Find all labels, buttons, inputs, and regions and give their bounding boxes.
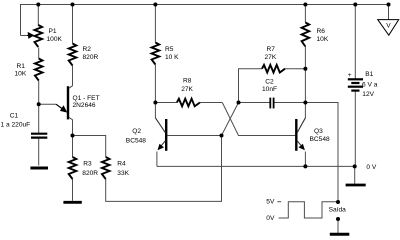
- resistor R6 body: [302, 23, 310, 47]
- svg-text:Saída: Saída: [329, 207, 347, 214]
- node rail V: [387, 3, 391, 7]
- node rail B1: [353, 3, 357, 7]
- wire Q2 collector riser: [154, 103, 156, 119]
- node Q1 base1: [71, 134, 75, 138]
- wire 5V level tick: [277, 201, 281, 203]
- svg-text:Q3: Q3: [314, 128, 323, 135]
- potentiometer P1 body: [35, 25, 43, 47]
- wire R6 top lead: [304, 5, 306, 23]
- wire 0V rail: [157, 165, 355, 167]
- node Saida bottom: [336, 217, 340, 221]
- svg-text:10 K: 10 K: [165, 54, 179, 61]
- wire top supply rail: [21, 5, 389, 36]
- svg-text:820R: 820R: [83, 54, 99, 61]
- svg-text:27K: 27K: [265, 54, 277, 61]
- wire Q1 emitter lead: [39, 103, 56, 105]
- svg-text:27K: 27K: [181, 86, 193, 93]
- transistor Q1 UJT 2N2646: [56, 86, 68, 119]
- wire battery positive lead: [354, 5, 356, 79]
- svg-text:B1: B1: [365, 71, 373, 78]
- svg-text:10nF: 10nF: [262, 86, 277, 93]
- transistor Q2 BC548: [155, 118, 166, 151]
- svg-text:R3: R3: [83, 161, 92, 168]
- svg-text:10K: 10K: [317, 36, 329, 43]
- svg-text:6 V a: 6 V a: [362, 82, 378, 89]
- resistor R2 body: [69, 44, 77, 66]
- wire R8 to crossover: [200, 102, 222, 104]
- svg-text:Q2: Q2: [132, 128, 141, 135]
- svg-text:0 V: 0 V: [366, 164, 376, 171]
- ground at 0V rail: [346, 184, 366, 187]
- svg-text:P1: P1: [49, 28, 57, 35]
- wire R4 bottom to Q2 base node: [106, 136, 222, 202]
- svg-text:33K: 33K: [117, 170, 129, 177]
- svg-text:12V: 12V: [362, 91, 374, 98]
- svg-text:BC548: BC548: [126, 138, 146, 145]
- wire node to R3: [72, 136, 74, 158]
- capacitor C1: [31, 134, 47, 166]
- svg-text:Q1 - FET: Q1 - FET: [73, 95, 100, 102]
- wire R7 right to R6 node: [285, 68, 305, 70]
- node Q1 emitter: [37, 102, 41, 106]
- wire node to R4 top: [73, 136, 106, 158]
- wire P1 top lead: [37, 5, 39, 26]
- wire R5 top lead: [154, 5, 156, 43]
- node Saida top: [336, 200, 340, 204]
- svg-text:R6: R6: [317, 28, 326, 35]
- node battery 0V: [353, 164, 357, 168]
- svg-text:R7: R7: [267, 46, 276, 53]
- node rail R5: [153, 3, 157, 7]
- node rail R2: [71, 3, 75, 7]
- wire C2 R7 node riser: [239, 69, 263, 103]
- svg-text:C2: C2: [265, 78, 274, 85]
- wire Q2 base to crossover: [167, 103, 238, 136]
- wire Q3 collector riser: [304, 103, 306, 119]
- svg-text:+: +: [348, 72, 352, 79]
- resistor R5 body: [152, 43, 160, 65]
- potentiometer P1 wiper arrow: [27, 32, 34, 39]
- svg-text:100K: 100K: [47, 36, 63, 43]
- wire C2 right plate to node: [274, 102, 305, 104]
- resistor R8 body: [177, 99, 200, 107]
- ground below R3: [63, 201, 81, 204]
- node R6 R7: [303, 67, 307, 71]
- wire Q2 emitter drop: [156, 152, 158, 167]
- power symbol V triangle: [378, 20, 399, 36]
- node rail P1: [36, 3, 40, 7]
- wire R5 to node: [154, 65, 156, 103]
- wire square wave: [279, 202, 337, 218]
- svg-text:R5: R5: [165, 46, 174, 53]
- resistor R1 body: [35, 59, 43, 81]
- wire R3 to ground: [72, 179, 74, 201]
- wire node to C2 left plate: [239, 102, 270, 104]
- wire Q1 base1 to node: [69, 117, 73, 135]
- wire R1 to C1 through node: [38, 81, 40, 133]
- svg-text:0V: 0V: [266, 215, 275, 222]
- svg-text:10K: 10K: [15, 71, 27, 78]
- resistor R4 body: [102, 157, 110, 179]
- wire Q3 emitter drop: [304, 152, 306, 167]
- node Q3 collector: [303, 101, 307, 105]
- svg-text:R1: R1: [17, 63, 26, 70]
- wire Saida ground stem: [337, 219, 339, 234]
- svg-text:820R: 820R: [82, 170, 98, 177]
- wire R2 to Q1 base2: [69, 66, 73, 89]
- svg-text:R8: R8: [183, 78, 192, 85]
- capacitor C2: [270, 98, 273, 109]
- wire battery negative lead: [354, 92, 356, 167]
- wire node to R8: [155, 102, 177, 104]
- ground below Saida: [330, 233, 350, 236]
- svg-text:C1: C1: [10, 113, 19, 120]
- svg-text:5V: 5V: [266, 199, 275, 206]
- svg-text:BC548: BC548: [310, 136, 330, 143]
- battery B1: [348, 79, 363, 90]
- wire R2 top lead: [72, 5, 74, 44]
- node Q2 base: [220, 134, 224, 138]
- resistor R7 body: [262, 65, 285, 73]
- node Q2 base coupling: [237, 101, 241, 105]
- svg-text:R4: R4: [117, 161, 126, 168]
- svg-text:V: V: [386, 23, 391, 30]
- resistor R3 body: [69, 157, 77, 179]
- svg-text:R2: R2: [83, 46, 92, 53]
- svg-text:2N2646: 2N2646: [73, 102, 96, 109]
- wire crossover R8 to Q3 base: [222, 103, 295, 136]
- wire R6 bottom to nodes: [304, 47, 306, 103]
- node Q2 collector: [153, 101, 157, 105]
- wire P1 to R1: [38, 48, 40, 59]
- wire P1 wiper stub: [21, 35, 28, 37]
- transistor Q3 BC548: [296, 118, 305, 151]
- node Q3 emitter 0V: [303, 164, 307, 168]
- node rail R6: [303, 3, 307, 7]
- svg-text:1 a 220uF: 1 a 220uF: [1, 121, 31, 128]
- wire output Saida line: [305, 103, 338, 203]
- wire 0V ground stem: [354, 166, 356, 183]
- ground below C1: [30, 167, 48, 170]
